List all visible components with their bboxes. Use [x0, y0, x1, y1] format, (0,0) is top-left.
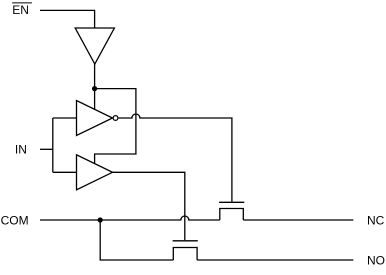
wire to U3 input — [53, 171, 77, 173]
svg-text:EN: EN — [12, 3, 29, 17]
wire EN to buffer U1 input — [40, 10, 95, 28]
svg-text:COM: COM — [1, 213, 29, 227]
wire IN branch vertical — [52, 118, 54, 172]
net label EN (with overline) — [12, 3, 32, 17]
wire COM to M1 source (hop over M2 gate wire) — [40, 216, 220, 220]
transistor M2 (NO switch) — [173, 241, 198, 260]
wire node A to inverter U2 enable stub — [94, 89, 96, 110]
node A junction dot — [92, 86, 97, 91]
svg-text:NC: NC — [367, 213, 385, 227]
inverter U2 — [77, 101, 118, 136]
wire M1 drain to NC — [243, 219, 353, 221]
wire COM node to M2 source — [100, 220, 173, 260]
wire U1 output to node A — [94, 64, 96, 89]
transistor M1 (NC switch) — [219, 202, 244, 220]
svg-text:NO: NO — [367, 253, 385, 267]
wire M2 drain to NO — [197, 259, 353, 261]
wire IN — [40, 148, 53, 150]
junction dot on COM node — [98, 217, 103, 222]
wire node A to buffer U3 enable (crosses U2 output) — [95, 89, 136, 164]
wire U3 output to M2 gate — [113, 172, 185, 240]
wire U2 output to M1 gate (hop over vertical wire) — [118, 114, 232, 202]
buffer U3 — [77, 155, 113, 190]
svg-text:IN: IN — [15, 143, 27, 157]
wire to U2 input — [53, 117, 77, 119]
buffer U1 (enable buffer, pointing down) — [75, 28, 114, 64]
